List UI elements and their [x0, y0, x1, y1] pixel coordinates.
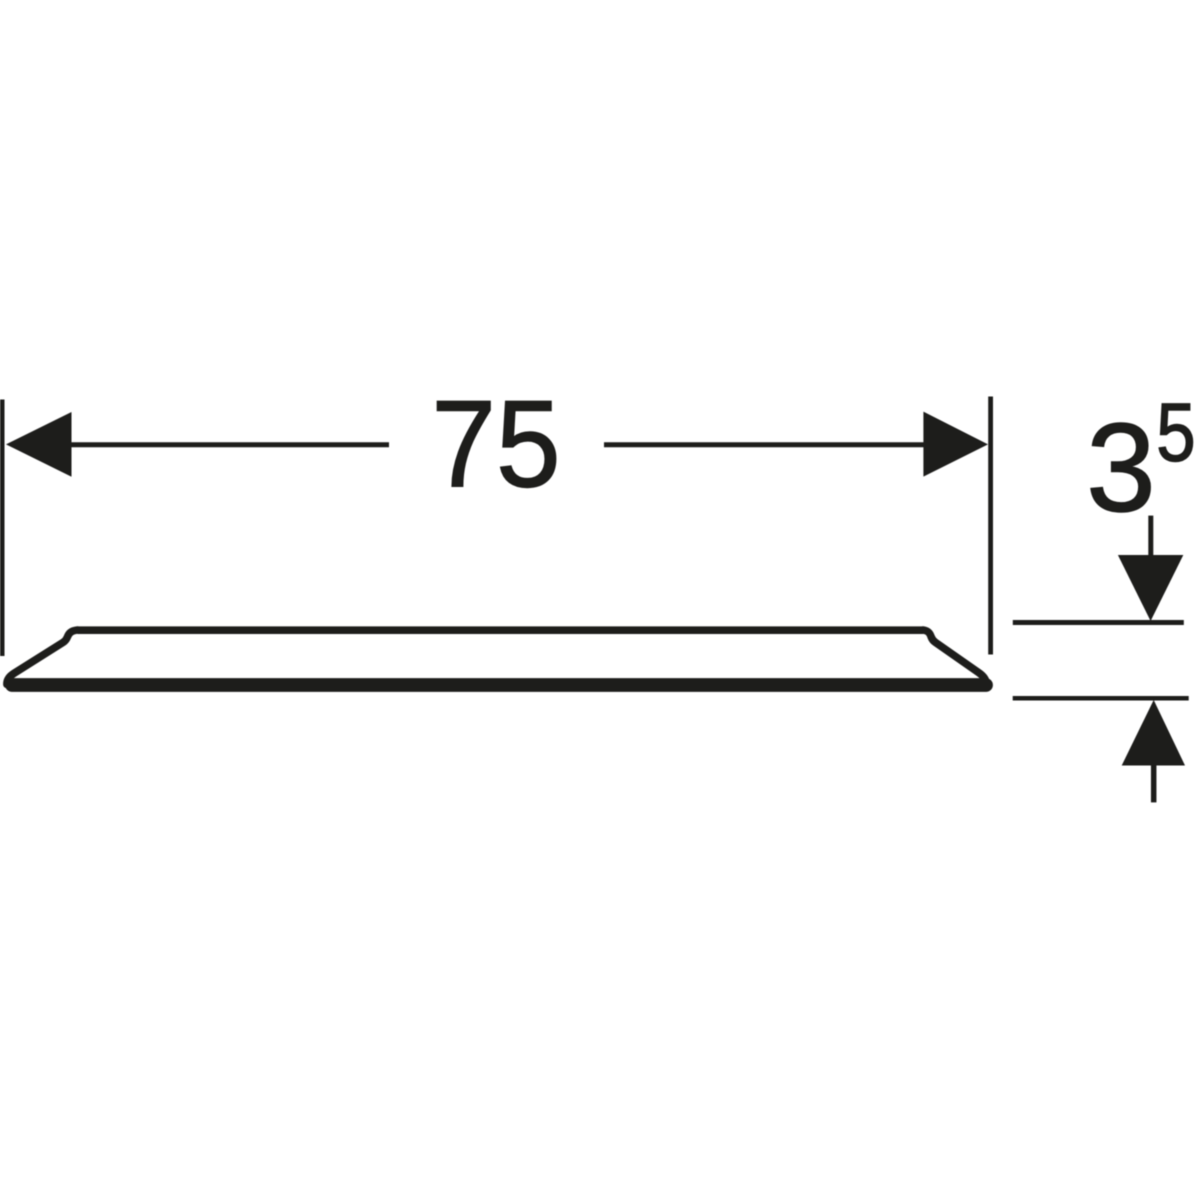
reference line top of shelf: [1013, 620, 1184, 625]
reference line bottom of shelf: [1013, 696, 1189, 701]
extension line left: [0, 400, 5, 657]
arrowhead left: [6, 412, 72, 477]
svg-text:5: 5: [1156, 386, 1195, 478]
arrow down head: [1118, 555, 1183, 621]
svg-text:3: 3: [1086, 399, 1155, 538]
svg-text:75: 75: [431, 376, 560, 513]
arrow down stem: [1148, 516, 1153, 557]
shelf profile right bevel: [923, 630, 986, 685]
arrow up stem: [1151, 763, 1157, 802]
shelf profile bottom edge: [12, 678, 986, 692]
dimension line right segment: [604, 442, 924, 447]
arrow up head: [1122, 700, 1185, 766]
extension line right: [988, 397, 993, 655]
dimension line left segment: [71, 442, 389, 447]
shelf profile left bevel: [7, 630, 78, 685]
arrowhead right: [923, 412, 988, 477]
shelf profile top surface: [78, 626, 924, 634]
